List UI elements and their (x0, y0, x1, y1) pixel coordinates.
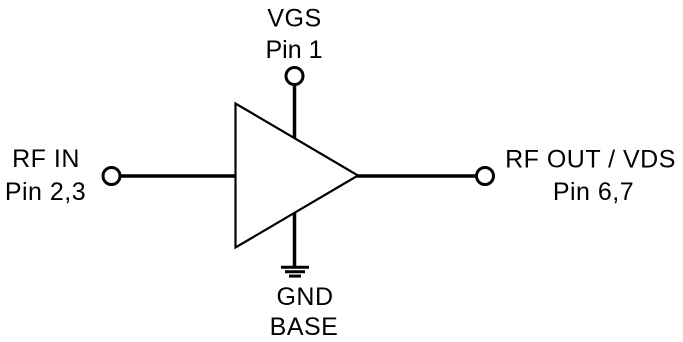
ground symbol (281, 267, 309, 276)
wire W4: amplifier bottom edge down to ground (293, 211, 297, 266)
svg-text:RF IN: RF IN (12, 145, 80, 173)
terminal Pin 2,3 (RF IN) (103, 168, 120, 185)
svg-text:Pin 6,7: Pin 6,7 (553, 178, 634, 206)
svg-text:Pin 1: Pin 1 (266, 36, 323, 64)
svg-text:BASE: BASE (270, 313, 339, 341)
wire W3: VGS terminal down to amplifier top edge (293, 80, 297, 140)
op-amp U1: amplifier triangle (236, 104, 359, 248)
svg-text:RF OUT / VDS: RF OUT / VDS (505, 146, 676, 174)
svg-text:Pin 2,3: Pin 2,3 (5, 178, 86, 206)
wire W1: RF IN terminal to amplifier input (120, 174, 237, 178)
wire W2: amplifier output to RF OUT terminal (356, 174, 476, 178)
svg-text:GND: GND (276, 283, 333, 311)
terminal Pin 1 (VGS) (286, 68, 303, 85)
terminal Pin 6,7 (RF OUT) (477, 168, 494, 185)
svg-text:VGS: VGS (267, 5, 321, 33)
